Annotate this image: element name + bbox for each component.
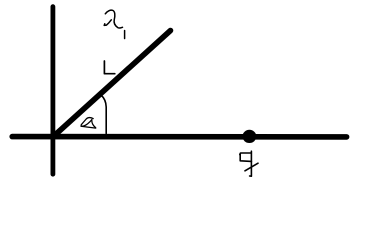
ray lambda1	[56, 31, 171, 135]
x-axis	[12, 134, 346, 140]
label q	[240, 151, 258, 176]
label lambda1	[104, 10, 124, 38]
y-axis	[51, 7, 56, 175]
label alpha	[81, 118, 96, 128]
point charge dot	[243, 130, 257, 143]
angle marker arc	[101, 95, 106, 134]
perpendicular mark L	[104, 61, 114, 74]
